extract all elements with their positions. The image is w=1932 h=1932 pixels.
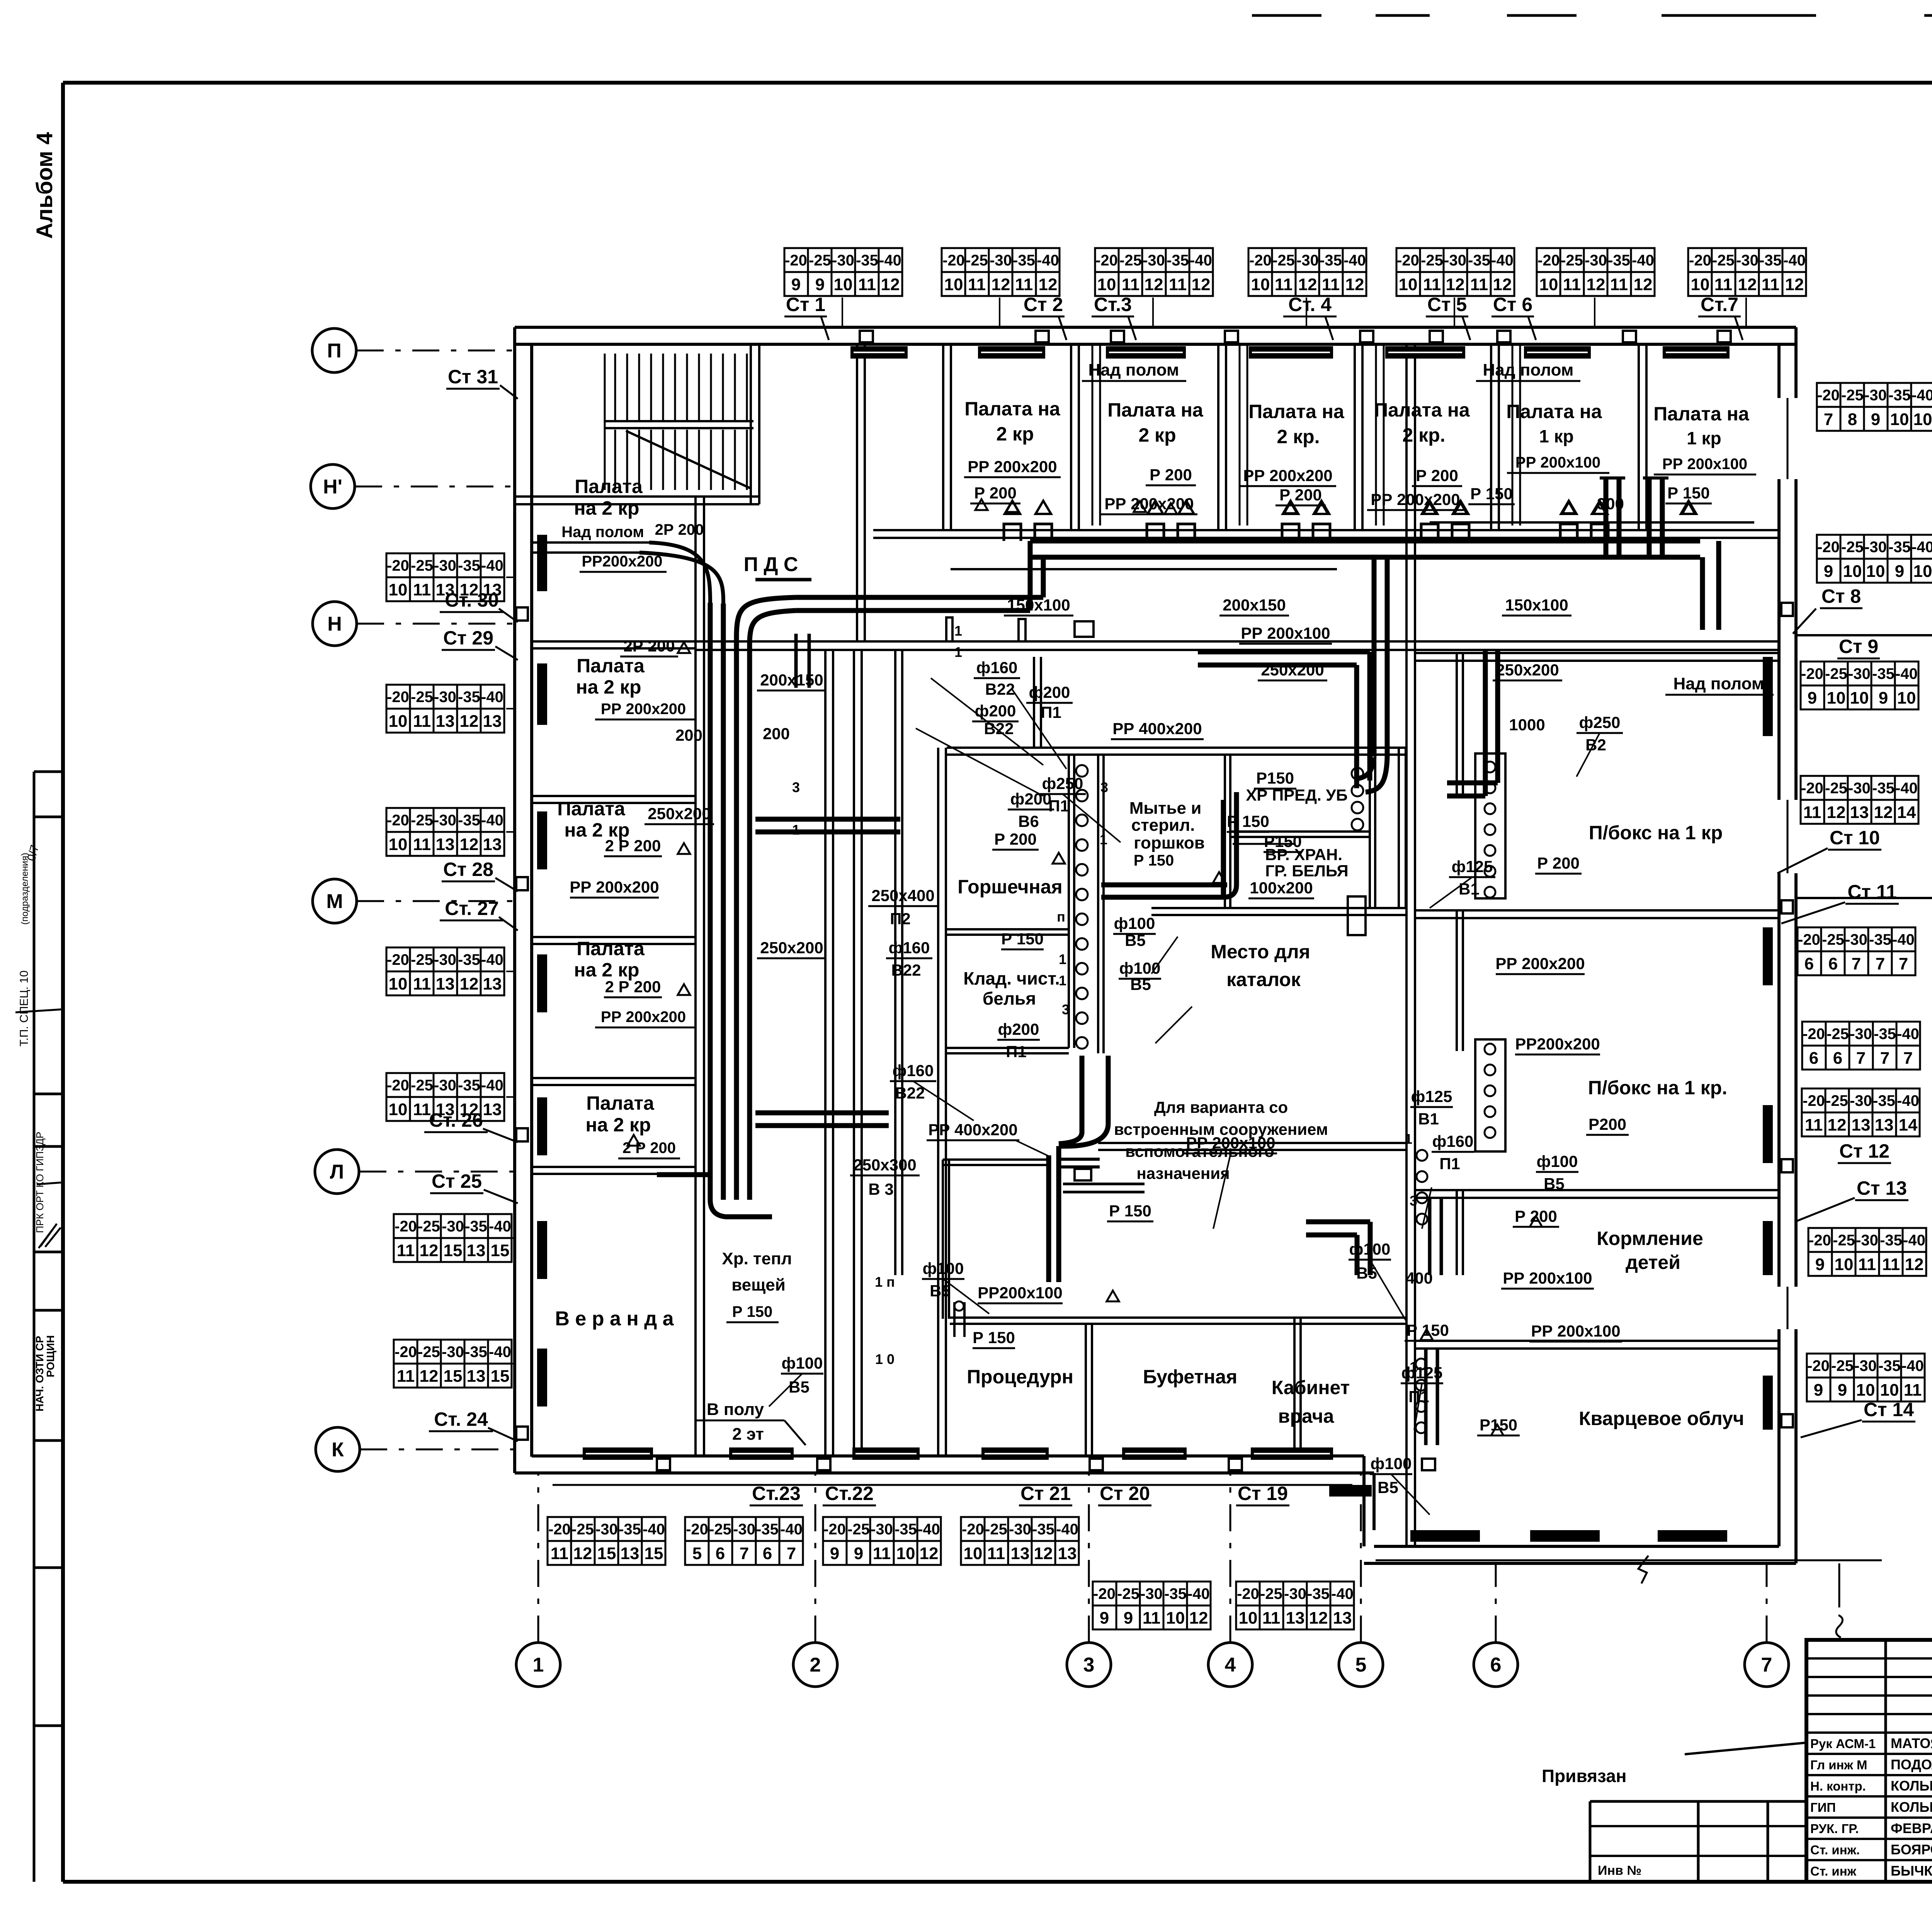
svg-text:12: 12 — [1189, 1609, 1208, 1628]
svg-text:-25: -25 — [411, 812, 433, 829]
svg-text:Ст.23: Ст.23 — [752, 1483, 801, 1504]
svg-text:ПРК ОРТ КО ГИПЗДР: ПРК ОРТ КО ГИПЗДР — [34, 1132, 46, 1233]
svg-text:-30: -30 — [1864, 539, 1887, 556]
svg-text:13: 13 — [467, 1241, 486, 1260]
svg-text:2 кр: 2 кр — [1138, 424, 1176, 446]
svg-text:-20: -20 — [1689, 252, 1711, 269]
svg-text:-20: -20 — [1537, 252, 1560, 269]
svg-text:9: 9 — [1808, 689, 1817, 707]
svg-text:ф160: ф160 — [893, 1061, 934, 1080]
svg-text:11: 11 — [397, 1241, 415, 1260]
svg-text:5: 5 — [692, 1544, 702, 1563]
svg-text:ф100: ф100 — [1349, 1240, 1391, 1258]
svg-text:10: 10 — [1856, 1381, 1875, 1400]
svg-text:Над полом: Над полом — [1088, 361, 1179, 379]
svg-text:12: 12 — [1827, 803, 1846, 822]
svg-text:Р200: Р200 — [1588, 1115, 1626, 1133]
svg-text:12: 12 — [1634, 275, 1653, 294]
svg-text:7: 7 — [1856, 1049, 1866, 1068]
svg-text:-30: -30 — [1284, 1585, 1306, 1602]
svg-text:-20: -20 — [1817, 387, 1840, 404]
svg-text:10: 10 — [389, 975, 408, 993]
svg-text:9: 9 — [1838, 1381, 1847, 1400]
svg-text:1 п: 1 п — [875, 1274, 895, 1290]
svg-text:-35: -35 — [756, 1521, 779, 1538]
svg-text:-30: -30 — [1845, 931, 1867, 948]
svg-text:1: 1 — [1405, 1131, 1412, 1147]
svg-text:РР 200х100: РР 200х100 — [1241, 624, 1330, 642]
svg-text:РР 400х200: РР 400х200 — [928, 1121, 1017, 1139]
svg-text:15: 15 — [491, 1367, 510, 1386]
svg-text:Палата на: Палата на — [1107, 399, 1204, 421]
svg-text:400: 400 — [1406, 1269, 1433, 1287]
svg-text:-25: -25 — [411, 557, 433, 574]
svg-text:-35: -35 — [458, 812, 480, 829]
svg-text:П: П — [327, 340, 341, 362]
svg-text:ф100: ф100 — [923, 1259, 964, 1277]
svg-text:-20: -20 — [1803, 1026, 1825, 1043]
svg-text:11: 11 — [413, 1100, 431, 1119]
svg-text:-20: -20 — [387, 812, 409, 829]
svg-text:-40: -40 — [1912, 539, 1932, 556]
svg-text:-40: -40 — [1901, 1357, 1924, 1374]
svg-text:10: 10 — [1866, 562, 1885, 581]
svg-text:БОЯРСКАЯ: БОЯРСКАЯ — [1891, 1842, 1932, 1857]
svg-text:РР200х100: РР200х100 — [978, 1284, 1063, 1302]
svg-text:12: 12 — [1192, 275, 1211, 294]
svg-text:НАЧ. ОЗТИ СР: НАЧ. ОЗТИ СР — [34, 1336, 46, 1412]
svg-text:12: 12 — [460, 712, 479, 731]
svg-text:11: 11 — [1714, 275, 1733, 294]
svg-text:200: 200 — [675, 726, 702, 744]
svg-text:(подразделения): (подразделения) — [20, 853, 30, 925]
svg-text:4: 4 — [1225, 1654, 1236, 1676]
svg-text:Ст. 27: Ст. 27 — [445, 898, 499, 919]
svg-text:-35: -35 — [1167, 252, 1189, 269]
svg-text:1000: 1000 — [1509, 716, 1545, 734]
svg-text:-35: -35 — [458, 557, 480, 574]
svg-text:ГР. БЕЛЬЯ: ГР. БЕЛЬЯ — [1265, 862, 1348, 880]
svg-text:7: 7 — [1824, 410, 1833, 429]
svg-text:-30: -30 — [1854, 1357, 1877, 1374]
svg-text:ФЕВРАЛЕВА: ФЕВРАЛЕВА — [1891, 1820, 1932, 1836]
svg-text:врача: врача — [1278, 1405, 1335, 1427]
svg-text:1: 1 — [1059, 951, 1066, 967]
svg-text:МАТОЯН: МАТОЯН — [1891, 1735, 1932, 1751]
svg-text:3: 3 — [1083, 1654, 1095, 1676]
svg-text:ф200: ф200 — [1029, 683, 1070, 701]
svg-text:-35: -35 — [1013, 252, 1035, 269]
svg-text:12: 12 — [1309, 1609, 1328, 1628]
svg-text:7: 7 — [1880, 1049, 1889, 1068]
svg-text:П/бокс на 1 кр: П/бокс на 1 кр — [1589, 822, 1723, 844]
svg-text:11: 11 — [1122, 275, 1140, 294]
svg-text:-20: -20 — [1807, 1357, 1830, 1374]
svg-text:-20: -20 — [1809, 1232, 1831, 1249]
svg-text:2 Р 200: 2 Р 200 — [605, 978, 661, 996]
svg-text:-35: -35 — [619, 1521, 641, 1538]
svg-text:12: 12 — [1446, 275, 1465, 294]
svg-text:-20: -20 — [1397, 252, 1419, 269]
svg-text:-40: -40 — [1632, 252, 1654, 269]
svg-text:Л: Л — [330, 1161, 344, 1183]
svg-text:Палата на: Палата на — [1506, 401, 1602, 422]
svg-text:Р 200: Р 200 — [1416, 466, 1458, 485]
svg-text:2 кр.: 2 кр. — [1277, 426, 1320, 447]
svg-text:В5: В5 — [1130, 975, 1151, 993]
svg-text:Над полом: Над полом — [1673, 674, 1764, 693]
svg-text:12: 12 — [1738, 275, 1757, 294]
svg-text:-30: -30 — [1848, 665, 1871, 682]
svg-text:РР 200х100: РР 200х100 — [1503, 1269, 1592, 1287]
svg-text:2: 2 — [810, 1654, 821, 1676]
svg-text:1: 1 — [954, 623, 962, 639]
svg-text:-30: -30 — [434, 951, 456, 968]
svg-text:Н. контр.: Н. контр. — [1810, 1779, 1866, 1793]
svg-text:1: 1 — [1100, 832, 1107, 847]
svg-text:-30: -30 — [1864, 387, 1887, 404]
svg-text:-35: -35 — [458, 689, 480, 706]
svg-text:-40: -40 — [1344, 252, 1366, 269]
svg-text:11: 11 — [413, 580, 431, 599]
svg-text:250х200: 250х200 — [648, 804, 711, 823]
svg-text:Рук АСМ-1: Рук АСМ-1 — [1810, 1736, 1876, 1751]
svg-text:Палата на: Палата на — [964, 398, 1061, 420]
svg-text:-35: -35 — [458, 1077, 480, 1094]
svg-text:-25: -25 — [709, 1521, 731, 1538]
svg-text:Р 150: Р 150 — [973, 1328, 1015, 1347]
svg-text:-30: -30 — [871, 1521, 893, 1538]
svg-text:детей: детей — [1626, 1252, 1680, 1273]
svg-text:11: 11 — [413, 835, 431, 854]
svg-text:-40: -40 — [1491, 252, 1514, 269]
svg-text:ф200: ф200 — [1010, 790, 1052, 808]
svg-text:-25: -25 — [1827, 1026, 1849, 1043]
svg-text:11: 11 — [1169, 275, 1187, 294]
svg-text:6: 6 — [1804, 954, 1814, 973]
svg-text:-40: -40 — [1056, 1521, 1078, 1538]
svg-text:ф160: ф160 — [1432, 1132, 1474, 1150]
svg-text:9: 9 — [1814, 1381, 1823, 1400]
svg-text:-30: -30 — [1140, 1585, 1163, 1602]
svg-text:ХР ПРЕД. УБ: ХР ПРЕД. УБ — [1246, 786, 1347, 804]
svg-text:Р 150: Р 150 — [1109, 1202, 1151, 1220]
svg-text:-35: -35 — [1032, 1521, 1054, 1538]
svg-text:12: 12 — [992, 275, 1010, 294]
svg-text:-20: -20 — [1801, 780, 1823, 797]
svg-text:11: 11 — [1610, 275, 1628, 294]
svg-text:1 кр: 1 кр — [1539, 426, 1573, 446]
svg-text:12: 12 — [1905, 1255, 1924, 1274]
svg-text:-35: -35 — [1873, 1092, 1895, 1109]
svg-text:250х200: 250х200 — [760, 939, 823, 957]
svg-text:13: 13 — [1850, 803, 1869, 822]
svg-text:10: 10 — [1913, 410, 1932, 429]
svg-text:ф100: ф100 — [782, 1354, 823, 1372]
svg-text:10: 10 — [834, 275, 853, 294]
svg-text:Ст 11: Ст 11 — [1847, 881, 1896, 903]
svg-text:9: 9 — [830, 1544, 839, 1563]
svg-text:10: 10 — [1835, 1255, 1854, 1274]
svg-text:10: 10 — [1850, 689, 1869, 707]
svg-text:11: 11 — [397, 1367, 415, 1386]
svg-text:7: 7 — [740, 1544, 749, 1563]
svg-text:-35: -35 — [1307, 1585, 1330, 1602]
svg-text:-25: -25 — [1833, 1232, 1855, 1249]
svg-text:Н': Н' — [323, 476, 342, 498]
svg-text:-40: -40 — [780, 1521, 803, 1538]
svg-text:10: 10 — [1880, 1381, 1899, 1400]
svg-text:П Д С: П Д С — [744, 553, 798, 576]
svg-text:-35: -35 — [465, 1344, 487, 1361]
svg-text:ф160: ф160 — [889, 939, 930, 957]
svg-text:-20: -20 — [1798, 931, 1820, 948]
svg-text:10: 10 — [1097, 275, 1116, 294]
svg-text:3: 3 — [792, 779, 800, 795]
svg-text:11: 11 — [1015, 275, 1033, 294]
svg-text:10: 10 — [389, 1100, 408, 1119]
svg-text:-30: -30 — [832, 252, 854, 269]
svg-text:14: 14 — [1897, 803, 1916, 822]
svg-text:13: 13 — [483, 975, 502, 993]
svg-text:13: 13 — [467, 1367, 486, 1386]
svg-text:250х300: 250х300 — [853, 1156, 917, 1174]
svg-text:Ст. инж: Ст. инж — [1810, 1864, 1857, 1878]
svg-text:2 кр: 2 кр — [996, 423, 1034, 445]
svg-text:В полу: В полу — [707, 1400, 764, 1419]
svg-text:РУК. ГР.: РУК. ГР. — [1810, 1821, 1859, 1836]
svg-text:12: 12 — [573, 1544, 592, 1563]
svg-text:12: 12 — [1587, 275, 1605, 294]
svg-text:13: 13 — [483, 1100, 502, 1119]
svg-text:РР 200х200: РР 200х200 — [601, 1009, 686, 1026]
svg-text:11: 11 — [413, 712, 431, 731]
svg-text:РР 200х100: РР 200х100 — [1531, 1322, 1620, 1340]
svg-text:Р 200: Р 200 — [1279, 486, 1322, 504]
svg-text:-35: -35 — [1872, 665, 1895, 682]
svg-text:Привязан: Привязан — [1542, 1766, 1627, 1786]
svg-text:1: 1 — [792, 822, 800, 838]
svg-text:-25: -25 — [1260, 1585, 1282, 1602]
svg-text:11: 11 — [1262, 1609, 1281, 1628]
svg-text:-20: -20 — [387, 951, 409, 968]
svg-text:13: 13 — [483, 712, 502, 731]
svg-text:12: 12 — [420, 1367, 439, 1386]
svg-text:КОЛЬЦОВА: КОЛЬЦОВА — [1891, 1778, 1932, 1794]
svg-text:-35: -35 — [1878, 1357, 1901, 1374]
svg-text:-20: -20 — [785, 252, 807, 269]
svg-text:10: 10 — [1239, 1609, 1258, 1628]
svg-text:Ст 12: Ст 12 — [1839, 1140, 1889, 1162]
svg-text:-20: -20 — [1237, 1585, 1259, 1602]
svg-text:-35: -35 — [1880, 1232, 1902, 1249]
svg-text:-20: -20 — [1093, 1585, 1116, 1602]
svg-text:11: 11 — [1275, 275, 1293, 294]
svg-text:7: 7 — [1761, 1654, 1772, 1676]
svg-text:13: 13 — [436, 712, 455, 731]
svg-text:11: 11 — [1904, 1381, 1922, 1400]
svg-text:-20: -20 — [962, 1521, 984, 1538]
svg-text:В1: В1 — [1418, 1110, 1439, 1128]
svg-text:13: 13 — [1058, 1544, 1077, 1563]
svg-text:12: 12 — [420, 1241, 439, 1260]
svg-text:11: 11 — [1762, 275, 1780, 294]
svg-text:М: М — [326, 890, 343, 913]
svg-text:Ст. 26: Ст. 26 — [429, 1109, 483, 1131]
svg-text:В22: В22 — [985, 680, 1015, 698]
svg-text:Ст 9: Ст 9 — [1839, 636, 1878, 657]
svg-text:250х200: 250х200 — [1496, 661, 1559, 679]
svg-text:-25: -25 — [411, 1077, 433, 1094]
svg-text:100х200: 100х200 — [1250, 879, 1313, 897]
svg-text:Палата: Палата — [577, 938, 645, 959]
svg-text:-30: -30 — [434, 1077, 456, 1094]
svg-text:-25: -25 — [1825, 780, 1847, 797]
svg-text:9: 9 — [1895, 562, 1904, 581]
svg-text:12: 12 — [1874, 803, 1893, 822]
svg-text:РР 200х200: РР 200х200 — [1243, 466, 1332, 485]
svg-text:10: 10 — [1251, 275, 1270, 294]
svg-text:Палата на: Палата на — [1374, 399, 1470, 421]
svg-text:5: 5 — [1355, 1654, 1367, 1676]
svg-text:Р 150: Р 150 — [1134, 852, 1174, 869]
svg-text:РР 200х200: РР 200х200 — [601, 701, 686, 718]
svg-text:-30: -30 — [1585, 252, 1607, 269]
svg-text:назначения: назначения — [1136, 1164, 1230, 1182]
svg-text:-40: -40 — [1895, 665, 1918, 682]
svg-text:2 Р 200: 2 Р 200 — [605, 837, 661, 855]
svg-text:11: 11 — [1882, 1255, 1900, 1274]
svg-text:ф160: ф160 — [976, 658, 1018, 677]
svg-text:Ст 8: Ст 8 — [1821, 585, 1861, 607]
svg-text:15: 15 — [645, 1544, 663, 1563]
svg-text:РР 200х200: РР 200х200 — [1104, 495, 1194, 513]
svg-text:-35: -35 — [1869, 931, 1891, 948]
svg-text:Место для: Место для — [1211, 941, 1310, 963]
svg-text:-30: -30 — [1444, 252, 1466, 269]
svg-text:10: 10 — [896, 1544, 915, 1563]
svg-text:-25: -25 — [1712, 252, 1735, 269]
svg-text:Палата: Палата — [586, 1092, 655, 1114]
svg-text:9: 9 — [815, 275, 825, 294]
svg-text:Ст 28: Ст 28 — [443, 859, 493, 880]
svg-text:горшков: горшков — [1134, 833, 1205, 852]
svg-text:Ст 14: Ст 14 — [1864, 1399, 1914, 1420]
svg-text:Ст.22: Ст.22 — [825, 1483, 874, 1504]
svg-text:на 2 кр: на 2 кр — [574, 497, 639, 519]
svg-text:Над полом: Над полом — [561, 524, 644, 541]
svg-text:Палата: Палата — [575, 476, 643, 497]
svg-text:-25: -25 — [1117, 1585, 1139, 1602]
svg-text:7: 7 — [787, 1544, 796, 1563]
svg-text:Процедурн: Процедурн — [967, 1366, 1073, 1388]
svg-text:Н: Н — [327, 613, 342, 635]
svg-text:Палата: Палата — [557, 798, 626, 820]
svg-text:Ст.3: Ст.3 — [1094, 294, 1132, 315]
svg-text:1: 1 — [1059, 973, 1066, 988]
svg-text:-40: -40 — [1037, 252, 1059, 269]
svg-text:Ст 6: Ст 6 — [1493, 294, 1532, 315]
svg-text:Гл инж М: Гл инж М — [1810, 1758, 1867, 1772]
svg-text:ф125: ф125 — [1401, 1364, 1443, 1382]
svg-text:-25: -25 — [1831, 1357, 1854, 1374]
svg-text:2 эт: 2 эт — [732, 1425, 764, 1444]
svg-text:12: 12 — [1785, 275, 1804, 294]
svg-text:12: 12 — [1345, 275, 1364, 294]
svg-text:-25: -25 — [847, 1521, 870, 1538]
svg-text:11: 11 — [413, 975, 431, 993]
svg-text:на 2 кр: на 2 кр — [585, 1114, 651, 1136]
svg-text:2Р 200: 2Р 200 — [655, 521, 704, 538]
svg-text:П/бокс на 1 кр.: П/бокс на 1 кр. — [1588, 1077, 1727, 1099]
svg-text:1 кр: 1 кр — [1687, 428, 1721, 448]
svg-text:-20: -20 — [823, 1521, 846, 1538]
svg-text:Ст 21: Ст 21 — [1020, 1483, 1071, 1504]
svg-text:Палата на: Палата на — [1653, 403, 1750, 425]
svg-text:Р 150: Р 150 — [732, 1303, 773, 1320]
svg-text:12: 12 — [1828, 1116, 1847, 1134]
svg-text:-40: -40 — [1783, 252, 1806, 269]
svg-text:РР 400х200: РР 400х200 — [1112, 719, 1202, 738]
svg-text:вещей: вещей — [731, 1276, 786, 1294]
svg-text:-25: -25 — [418, 1218, 440, 1235]
svg-text:-30: -30 — [434, 557, 456, 574]
svg-text:13: 13 — [621, 1544, 639, 1563]
svg-text:-30: -30 — [1736, 252, 1759, 269]
svg-text:15: 15 — [491, 1241, 510, 1260]
svg-text:П1: П1 — [1439, 1155, 1460, 1173]
svg-text:Хр. тепл: Хр. тепл — [722, 1249, 792, 1268]
svg-text:-30: -30 — [1848, 780, 1871, 797]
svg-text:-25: -25 — [1825, 665, 1847, 682]
svg-text:3: 3 — [1062, 1002, 1070, 1017]
svg-text:-20: -20 — [395, 1344, 417, 1361]
svg-text:на 2 кр: на 2 кр — [576, 676, 641, 698]
svg-text:-25: -25 — [1561, 252, 1583, 269]
svg-text:200х150: 200х150 — [1223, 596, 1286, 614]
svg-text:Р 150: Р 150 — [1667, 484, 1710, 502]
svg-text:-20: -20 — [387, 557, 409, 574]
svg-text:11: 11 — [1563, 275, 1581, 294]
svg-text:-35: -35 — [856, 252, 878, 269]
svg-text:ГИП: ГИП — [1810, 1800, 1836, 1815]
svg-text:9: 9 — [1879, 689, 1888, 707]
svg-text:11: 11 — [1423, 275, 1441, 294]
svg-text:ф250: ф250 — [1579, 713, 1621, 731]
svg-text:Ст 13: Ст 13 — [1857, 1177, 1907, 1199]
svg-text:-30: -30 — [1856, 1232, 1878, 1249]
svg-text:-25: -25 — [411, 689, 433, 706]
svg-text:12: 12 — [1493, 275, 1512, 294]
svg-text:Ст 25: Ст 25 — [432, 1170, 482, 1192]
svg-text:Клад. чист.: Клад. чист. — [963, 968, 1060, 988]
svg-text:П1: П1 — [1041, 703, 1061, 721]
svg-text:11: 11 — [551, 1544, 569, 1563]
svg-text:В е р а н д а: В е р а н д а — [555, 1308, 674, 1330]
svg-text:Для варианта со: Для варианта со — [1154, 1098, 1288, 1116]
svg-text:150х100: 150х100 — [1007, 596, 1070, 614]
svg-text:-40: -40 — [481, 557, 503, 574]
svg-text:Ст 31: Ст 31 — [448, 366, 498, 388]
svg-text:-35: -35 — [1759, 252, 1782, 269]
svg-text:ф125: ф125 — [1411, 1087, 1452, 1105]
svg-text:10: 10 — [389, 580, 408, 599]
svg-text:Над полом: Над полом — [1483, 361, 1574, 379]
svg-text:11: 11 — [873, 1544, 891, 1563]
svg-text:10: 10 — [1897, 689, 1916, 707]
svg-text:13: 13 — [1011, 1544, 1030, 1563]
svg-text:белья: белья — [983, 988, 1036, 1009]
